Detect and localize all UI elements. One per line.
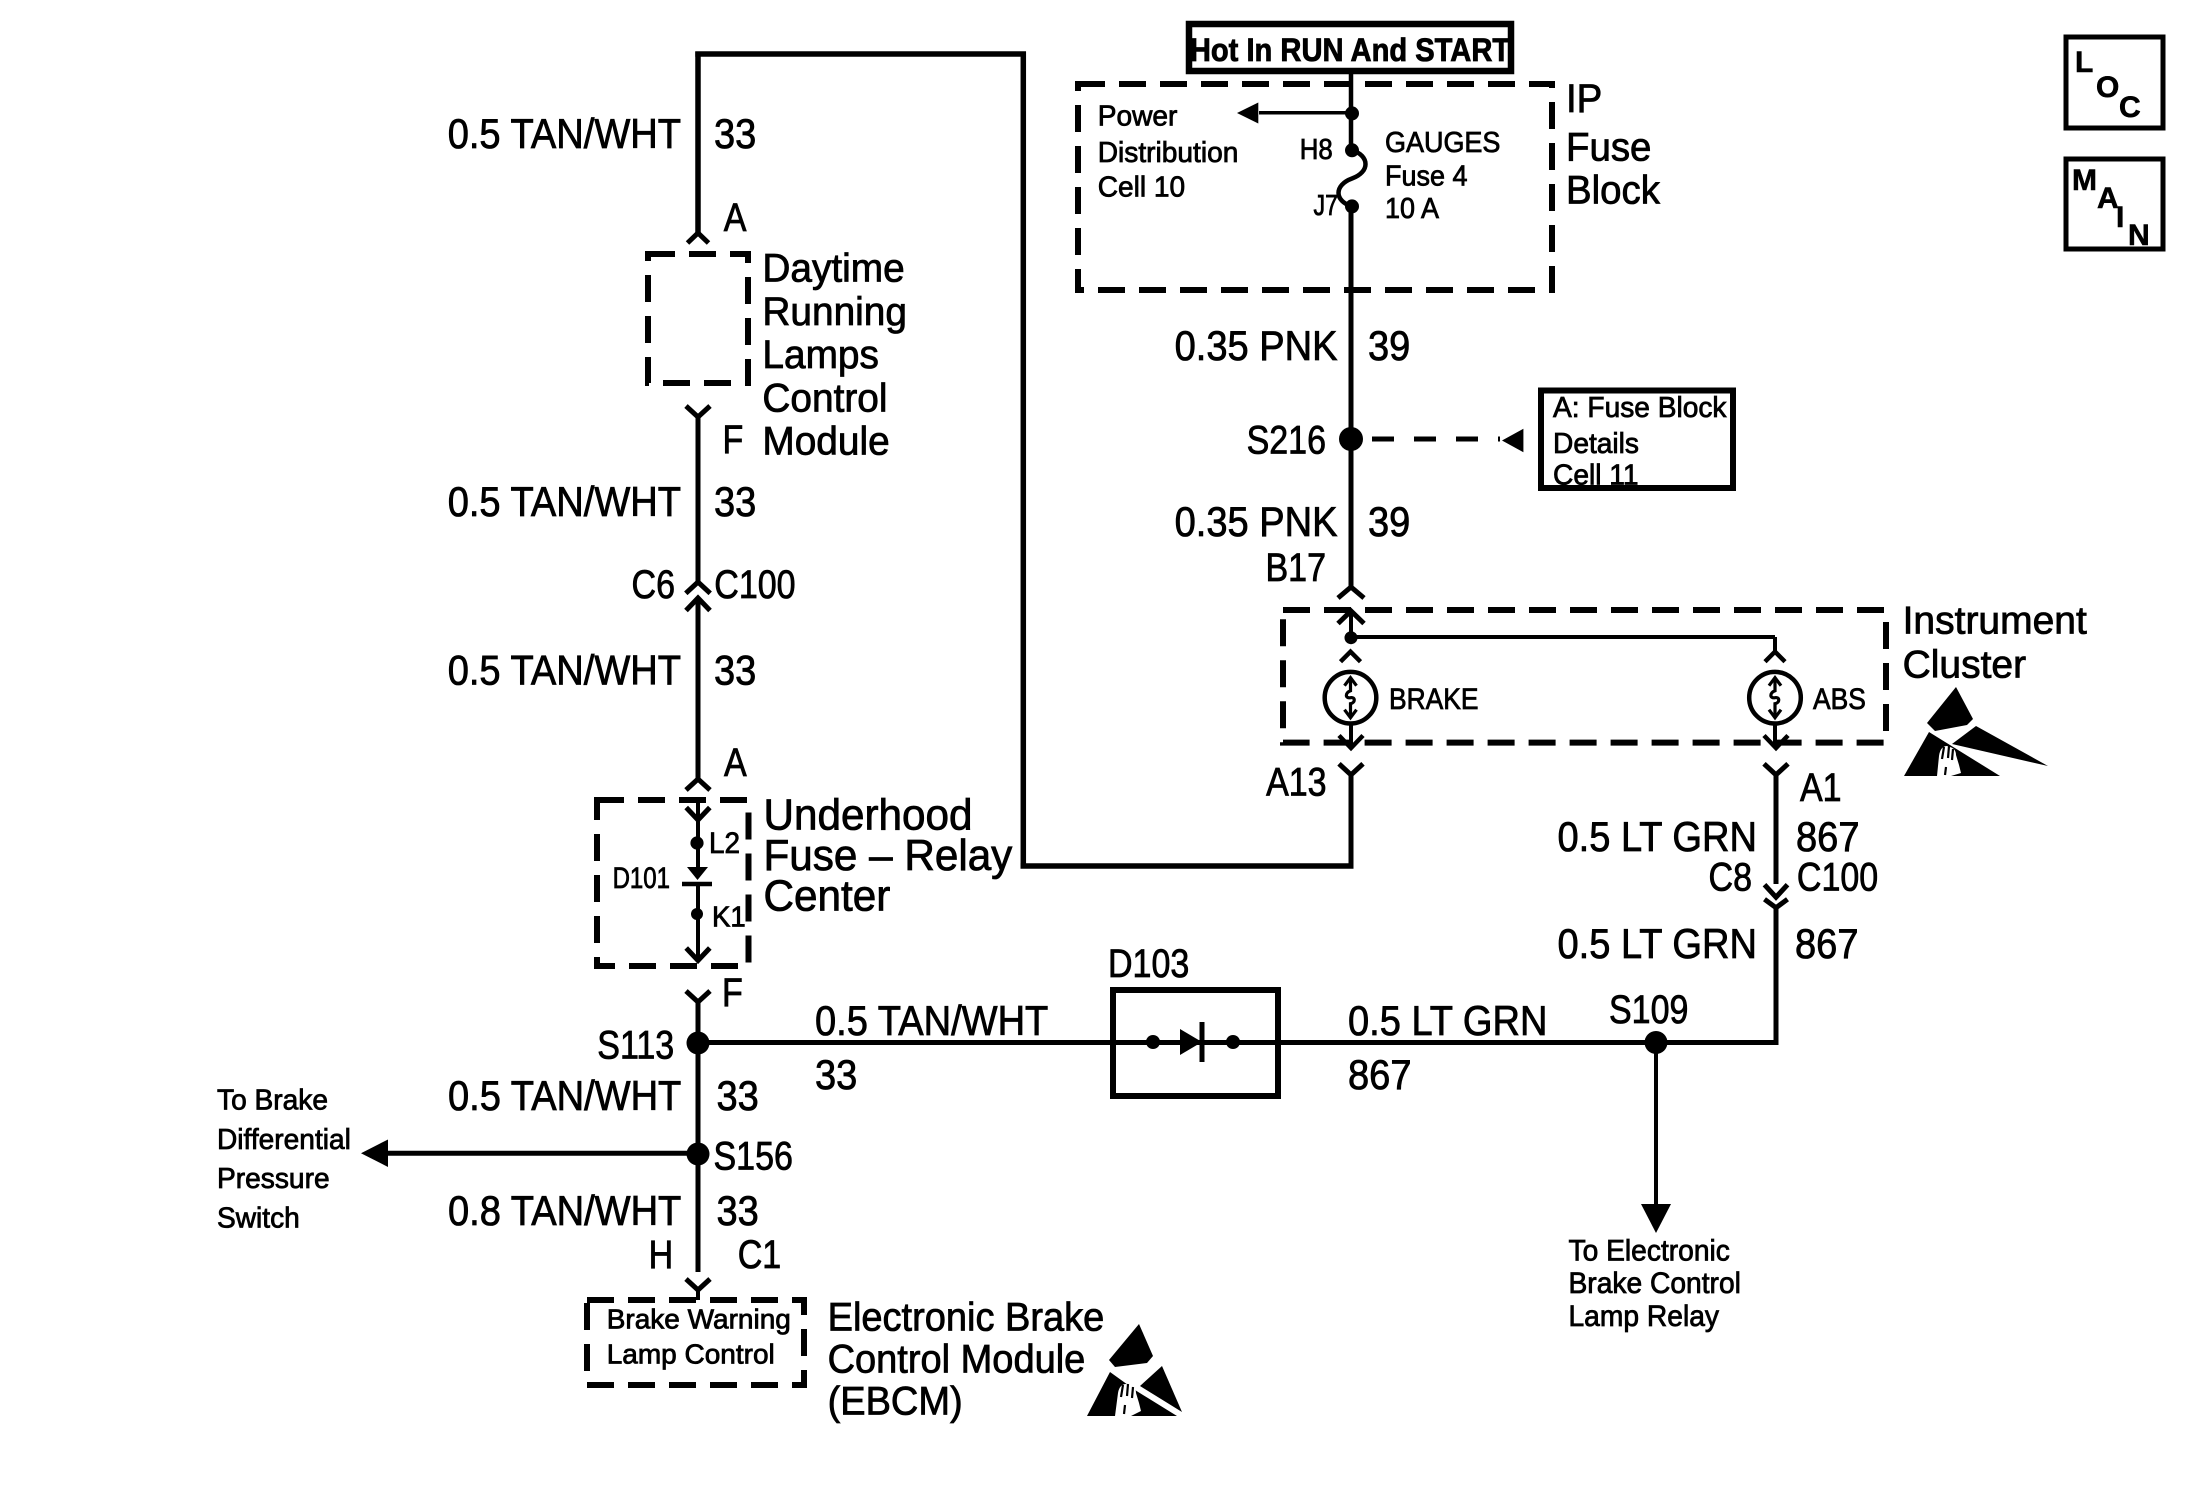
svg-text:Distribution: Distribution	[1098, 137, 1239, 169]
svg-text:J7: J7	[1314, 190, 1339, 222]
svg-text:0.5 LT GRN: 0.5 LT GRN	[1348, 997, 1548, 1044]
svg-text:Brake Control: Brake Control	[1569, 1267, 1741, 1300]
svg-text:0.5 LT GRN: 0.5 LT GRN	[1558, 920, 1758, 967]
connector A13 female chevron	[1339, 764, 1363, 775]
connector A female chevron (UHFRC)	[686, 779, 710, 790]
wire: down to ABS lamp chevron	[1773, 637, 1777, 652]
svg-text:33: 33	[714, 647, 756, 694]
svg-text:M: M	[2072, 164, 2097, 197]
wire: cluster internal horizontal to ABS	[1351, 635, 1775, 639]
splice S156	[687, 1143, 710, 1166]
splice S216	[1339, 427, 1363, 451]
ESD sensitive device symbol (instrument cluster)	[1904, 687, 2048, 776]
svg-text:D101: D101	[613, 862, 670, 895]
svg-text:A: Fuse Block: A: Fuse Block	[1553, 392, 1727, 424]
svg-text:ABS: ABS	[1813, 683, 1866, 716]
diode D103 cathode bar	[1200, 1022, 1205, 1062]
svg-text:B17: B17	[1266, 546, 1327, 590]
module box: IP Fuse Block	[1078, 84, 1552, 290]
arrowhead to brake control lamp relay	[1641, 1204, 1671, 1233]
svg-text:A: A	[724, 741, 747, 785]
connector C100 female half (left)	[686, 582, 710, 593]
svg-text:(EBCM): (EBCM)	[828, 1380, 963, 1424]
fuse GAUGES Fuse 4 10A (S-curve)	[1339, 150, 1366, 207]
fuse terminal J7 dot	[1345, 199, 1359, 213]
diode module D103 box	[1113, 990, 1278, 1096]
svg-text:0.5 TAN/WHT: 0.5 TAN/WHT	[448, 110, 681, 157]
wire: arrow to Brake Differential Pressure Switch	[383, 1151, 698, 1156]
arrowhead to power distribution	[1237, 103, 1258, 124]
svg-text:C1: C1	[738, 1233, 782, 1277]
indicator lamp BRAKE	[1325, 672, 1377, 724]
splice S113	[687, 1032, 710, 1055]
svg-text:Control Module: Control Module	[828, 1338, 1086, 1382]
wire: cluster internal feed from B17	[1349, 611, 1353, 638]
svg-text:Electronic Brake: Electronic Brake	[828, 1296, 1105, 1340]
svg-text:Hot In RUN And START: Hot In RUN And START	[1190, 32, 1511, 68]
module box: Brake Warning Lamp Control (EBCM)	[587, 1300, 804, 1385]
svg-text:867: 867	[1348, 1051, 1412, 1098]
svg-text:0.5 LT GRN: 0.5 LT GRN	[1558, 813, 1758, 860]
terminal L2 dot	[690, 836, 703, 849]
svg-text:867: 867	[1795, 920, 1859, 967]
wire: feed from Hot box into fuse	[1349, 71, 1354, 150]
svg-text:Cluster: Cluster	[1903, 644, 2027, 687]
splice S109	[1645, 1031, 1668, 1054]
module box: Underhood Fuse-Relay Center	[597, 800, 749, 966]
svg-text:Instrument: Instrument	[1903, 600, 2087, 643]
svg-text:C100: C100	[1797, 855, 1878, 899]
wire: drop to Electronic Brake Control Lamp Relay	[1654, 1043, 1658, 1207]
svg-text:C: C	[2119, 91, 2141, 124]
svg-text:To Brake: To Brake	[217, 1084, 328, 1116]
wire: BRAKE lamp to A13 exit	[1349, 724, 1353, 749]
svg-text:39: 39	[1368, 322, 1410, 369]
svg-text:10 A: 10 A	[1385, 193, 1440, 225]
svg-text:L: L	[2075, 46, 2093, 79]
svg-text:Cell 11: Cell 11	[1553, 460, 1639, 492]
svg-text:0.5 TAN/WHT: 0.5 TAN/WHT	[448, 478, 681, 525]
dashed reference line from S216	[1372, 437, 1500, 442]
male arrow into UHFRC	[686, 808, 710, 821]
svg-text:39: 39	[1368, 498, 1410, 545]
power feed box: Hot In RUN And START	[1189, 24, 1511, 71]
connector B17 female chevron	[1338, 587, 1364, 598]
indicator lamp ABS	[1749, 672, 1801, 724]
svg-text:A13: A13	[1266, 761, 1327, 805]
connector H female chevron (EBCM)	[686, 1279, 710, 1290]
wire: 0.5 LT GRN 867 from A1 to C100	[1774, 775, 1779, 884]
wire: A13 stem down to loop	[1349, 775, 1354, 868]
lamp terminal chevron (BRAKE)	[1341, 652, 1361, 662]
wire: stem into EBCM box	[696, 1290, 700, 1300]
svg-text:33: 33	[717, 1072, 759, 1119]
fuse terminal H8 dot	[1345, 143, 1359, 157]
terminal K1 dot	[691, 908, 703, 920]
svg-text:33: 33	[815, 1051, 857, 1098]
svg-text:0.35 PNK: 0.35 PNK	[1175, 498, 1338, 545]
svg-text:S216: S216	[1247, 419, 1326, 463]
svg-text:Daytime: Daytime	[762, 247, 904, 291]
wire: top horizontal of TAN/WHT 33 loop	[695, 51, 1026, 57]
svg-text:867: 867	[1796, 813, 1860, 860]
diode D101 triangle	[687, 867, 708, 880]
lamp terminal chevron (ABS)	[1765, 652, 1785, 662]
svg-text:C100: C100	[714, 563, 795, 607]
wire: UHFRC internal upper segment	[696, 800, 700, 869]
svg-text:F: F	[722, 971, 743, 1015]
module box: Daytime Running Lamps Control Module	[648, 254, 748, 383]
svg-text:BRAKE: BRAKE	[1389, 683, 1479, 716]
male arrow out of UHFRC	[686, 948, 710, 961]
svg-text:H8: H8	[1300, 134, 1333, 166]
reference arrowhead at detail box	[1502, 429, 1523, 452]
svg-text:Power: Power	[1098, 101, 1178, 133]
wire: 0.5 TAN/WHT 33 from UHFRC F down to EBCM	[696, 1002, 701, 1272]
wire: 0.5 LT GRN 867 from C100 down to S109 run	[1774, 908, 1779, 1045]
svg-text:S109: S109	[1609, 988, 1688, 1032]
junction dot at power distribution tap	[1345, 106, 1359, 120]
svg-text:33: 33	[714, 110, 756, 157]
male arrow out of cluster (A13)	[1339, 736, 1363, 749]
svg-text:Control: Control	[762, 376, 887, 420]
svg-text:Center: Center	[764, 872, 891, 921]
wire: 0.5 TAN/WHT 33 from C100 to UHFRC A	[696, 598, 701, 779]
svg-text:GAUGES: GAUGES	[1385, 127, 1500, 159]
svg-text:D103: D103	[1108, 942, 1189, 986]
svg-text:C6: C6	[632, 563, 676, 607]
diode D103 triangle	[1180, 1029, 1202, 1055]
svg-text:Lamp Control: Lamp Control	[607, 1339, 775, 1370]
svg-text:Fuse: Fuse	[1566, 126, 1651, 170]
wire: ABS lamp to A1 exit	[1773, 724, 1777, 749]
svg-text:IP: IP	[1566, 77, 1602, 121]
svg-text:S113: S113	[597, 1024, 674, 1068]
svg-text:S156: S156	[714, 1134, 793, 1178]
connector C100 male arrow (left)	[686, 598, 710, 611]
svg-text:Switch: Switch	[217, 1203, 300, 1235]
svg-text:F: F	[723, 418, 744, 462]
wire: horizontal run S113 - D103 - S109	[698, 1040, 1776, 1045]
D103 anode dot	[1146, 1035, 1160, 1049]
svg-text:To Electronic: To Electronic	[1569, 1234, 1730, 1267]
svg-text:0.5 TAN/WHT: 0.5 TAN/WHT	[448, 647, 681, 694]
svg-text:0.35 PNK: 0.35 PNK	[1175, 322, 1338, 369]
svg-text:0.8 TAN/WHT: 0.8 TAN/WHT	[448, 1187, 681, 1234]
wire: 0.35 PNK 39 from fuse to instrument cluster	[1349, 206, 1354, 587]
svg-text:33: 33	[714, 478, 756, 525]
svg-text:K1: K1	[712, 902, 746, 934]
ESD sensitive device symbol (EBCM)	[1087, 1324, 1182, 1416]
svg-text:0.5 TAN/WHT: 0.5 TAN/WHT	[815, 997, 1048, 1044]
wire: 0.5 TAN/WHT 33 from DRL F to C100	[696, 417, 701, 582]
svg-text:Pressure: Pressure	[217, 1163, 330, 1195]
svg-text:0.5 TAN/WHT: 0.5 TAN/WHT	[448, 1072, 681, 1119]
wire: left vertical drop to DRL module connector A	[695, 52, 701, 234]
svg-text:Fuse 4: Fuse 4	[1385, 160, 1468, 192]
detail box: A Fuse Block Details Cell 11	[1541, 391, 1733, 489]
svg-text:Module: Module	[762, 420, 889, 464]
corner tab box MAIN	[2066, 159, 2163, 249]
svg-text:Differential: Differential	[217, 1124, 351, 1156]
svg-text:C8: C8	[1709, 855, 1753, 899]
male arrow into instrument cluster	[1338, 611, 1364, 624]
svg-text:A1: A1	[1800, 766, 1842, 810]
svg-text:Details: Details	[1553, 428, 1639, 460]
svg-text:Cell 10: Cell 10	[1098, 171, 1186, 203]
corner tab box LOC	[2066, 37, 2163, 128]
svg-text:Brake Warning: Brake Warning	[607, 1304, 791, 1335]
svg-text:Block: Block	[1566, 169, 1661, 213]
diode D101 cathode bar	[682, 882, 712, 887]
svg-text:I: I	[2116, 201, 2124, 234]
connector C100 female half (right)	[1765, 899, 1788, 908]
svg-text:A: A	[724, 196, 747, 240]
module box: Instrument Cluster	[1283, 610, 1886, 743]
svg-text:L2: L2	[709, 827, 740, 860]
connector F female chevron (DRL module)	[686, 406, 710, 417]
svg-text:N: N	[2128, 219, 2150, 252]
svg-text:Lamps: Lamps	[762, 333, 879, 377]
wire: tap line to power distribution	[1259, 111, 1351, 115]
male arrow out of cluster (A1)	[1764, 736, 1788, 749]
connector A female chevron (DRL module)	[688, 233, 709, 243]
svg-text:Running: Running	[762, 290, 907, 334]
connector F female chevron (UHFRC)	[686, 991, 710, 1002]
connector C100 male arrow (right)	[1765, 885, 1788, 898]
connector A1 female chevron	[1764, 764, 1788, 775]
wire: UHFRC internal lower segment	[696, 884, 700, 960]
D103 cathode dot	[1226, 1035, 1240, 1049]
svg-text:33: 33	[717, 1187, 759, 1234]
cluster internal junction dot	[1345, 631, 1358, 644]
svg-text:H: H	[649, 1233, 674, 1277]
svg-text:O: O	[2096, 71, 2119, 104]
wire: horizontal y=866 joining A13 stem	[1021, 863, 1354, 869]
wire: right loop vertical x=1023	[1021, 52, 1027, 869]
svg-text:Lamp Relay: Lamp Relay	[1569, 1300, 1720, 1333]
arrowhead to brake diff pressure switch	[361, 1140, 388, 1168]
